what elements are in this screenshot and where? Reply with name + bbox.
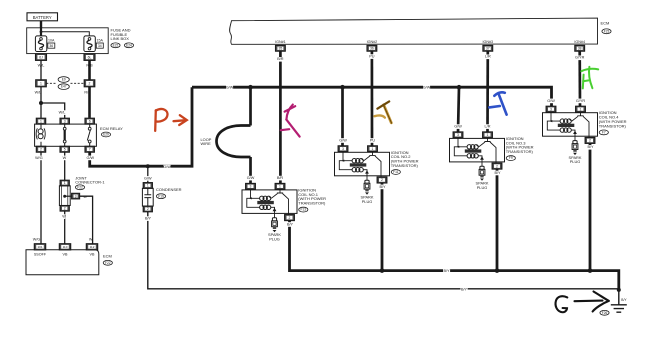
dashed connector link right [71,82,85,84]
dashed connector link left [46,82,57,84]
connector oval coil 2 [391,170,400,175]
svg-text:SSOFF: SSOFF [34,252,47,256]
node B/Y junction coil 2 [380,268,385,273]
svg-text:F13: F13 [301,208,307,212]
svg-text:3: 3 [342,147,344,151]
connector E9 [58,77,69,83]
svg-text:1: 1 [279,185,281,189]
svg-text:W/L: W/L [59,111,66,115]
svg-text:G/W: G/W [144,176,152,180]
ECM pin IGN#4 [575,45,585,51]
battery BATTERY [27,13,58,21]
ground symbol [611,292,627,313]
label B/R [277,57,284,62]
wire G/W to condenser [147,168,149,183]
coil 4 internal wiring [547,113,560,130]
svg-text:112: 112 [90,245,95,249]
svg-text:SPARKPLUG: SPARKPLUG [361,195,374,204]
svg-text:G/YR: G/YR [576,99,586,103]
relay switch contact [87,124,91,146]
wire B/Y ground bus [290,221,619,290]
svg-text:F11: F11 [393,170,398,174]
coil 1 pin 3 [246,183,256,189]
coil 2 internal wiring [339,152,352,169]
svg-text:B/Y: B/Y [621,298,627,302]
label VB 2 [90,252,95,256]
wire G/W branch down [249,87,252,125]
transistor coil 1 [269,190,289,215]
coil 4 transformer core [558,124,575,127]
connector pin 2 [84,80,95,87]
svg-text:B/Y: B/Y [443,269,450,273]
wire B/Y coil 3 [496,169,499,271]
svg-text:E22: E22 [113,43,119,47]
svg-text:6J: 6J [39,55,43,59]
svg-text:VB: VB [90,252,95,256]
joint connector top pin [60,180,69,186]
label G/W [87,156,95,161]
label G/W coil 1 [247,176,255,181]
label B/R coil 1 [277,176,284,181]
svg-text:E47: E47 [61,85,67,89]
label 15A [97,38,104,42]
ECM pin IGN#1 [276,45,286,51]
label IGN#2 [367,40,378,44]
transistor coil 2 [362,152,382,177]
wire G/W branch coil 2 [341,87,344,146]
wire G/W loop to coil 1 [249,157,252,183]
label CONDENSER [156,187,182,192]
wire joint connector branch [65,195,72,197]
svg-text:B/R: B/R [277,57,284,61]
coil 4 pin 3 [546,106,556,112]
diode coil 4 [571,130,577,141]
wire G/YR IGN4 [578,51,581,106]
ECM pin VB 2 [86,244,97,250]
coil 3 transformer core [465,149,482,152]
svg-text:15A: 15A [97,38,104,42]
svg-text:B/Y: B/Y [287,222,294,226]
label R/B [86,64,93,68]
relay coil [36,124,45,146]
label B/Y coil 4 [587,145,594,150]
wire W/L [40,60,42,79]
ECM pin SSOFF [34,244,45,250]
diode coil 3 [478,156,484,167]
coil 4 pin 2 [585,137,595,143]
svg-text:G/W: G/W [454,125,462,129]
condenser bottom pin [143,206,152,212]
coil 4 transformer secondary [560,128,571,132]
wire R/B [88,60,91,79]
label VB 1 [63,252,68,256]
wire PU IGN2 [371,51,374,146]
svg-text:1: 1 [40,119,42,123]
svg-text:1: 1 [580,107,582,111]
coil 3 pin 1 [483,132,493,138]
svg-text:B/Y: B/Y [461,287,468,291]
svg-text:E9: E9 [62,78,66,82]
label ECM RELAY [100,126,123,131]
svg-text:IGN#2: IGN#2 [367,40,378,44]
svg-text:B/R: B/R [277,176,284,180]
label ECM bottom [103,254,112,259]
joint connector JOINT CONNECTOR-1 body [59,186,70,206]
svg-text:B/Y: B/Y [145,217,152,221]
svg-text:1: 1 [487,133,489,137]
spark plug coil 1 [272,218,278,233]
svg-text:SPARKPLUG: SPARKPLUG [268,232,281,241]
connector F26 [600,310,609,315]
relay pin 3 [60,118,69,124]
label B/Y condenser [145,216,152,221]
relay ECM RELAY box [35,124,97,146]
spark plug coil 2 [364,180,370,195]
label B/Y bus [443,269,450,274]
condenser top pin [143,183,152,189]
wire to fuse 1 [40,28,42,36]
label W 3 [89,238,93,242]
label G/YR coil 4 [576,99,586,104]
coil 2 pin 2 [377,177,387,183]
connector E47 [58,84,69,90]
label IGN#1 [275,40,286,44]
svg-text:L/R: L/R [485,55,491,59]
annotation black G with arrow [556,292,609,313]
svg-text:F19: F19 [158,194,164,198]
svg-text:3: 3 [457,133,459,137]
node joint connector junction [63,195,66,198]
connector E22 [111,43,120,48]
svg-text:B/Y: B/Y [587,145,594,149]
connector oval coil 1 [299,207,308,212]
label W/G [35,156,43,161]
wire W relay pin 5 to joint connector [64,152,66,181]
wire W/L to relay pin 1 [40,87,42,118]
label B/Y coil 3 [494,171,501,176]
svg-text:36: 36 [370,47,374,51]
svg-text:2: 2 [89,82,91,86]
coil 3 pin 3 [453,132,463,138]
fuse 15A (34) [84,36,95,52]
svg-text:G/W: G/W [247,176,255,180]
svg-text:101: 101 [37,245,42,249]
svg-text:B/Y: B/Y [379,185,386,189]
coil 2 transformer primary [352,159,363,163]
label R/B 2 [84,91,91,95]
coil 1 transformer primary [260,196,271,200]
label W/G 2 [33,238,41,242]
svg-text:3: 3 [75,194,77,198]
node condenser junction [146,164,150,168]
svg-text:2: 2 [289,216,291,220]
fuse 10A (36) [35,36,46,52]
annotation brown scribble [375,101,392,123]
svg-text:IGN#4: IGN#4 [574,40,585,44]
node ground junction [617,288,621,292]
connector F23 [602,29,611,34]
wire W/L branch to relay pin 3 [41,103,65,118]
coil 3 transformer secondary [467,154,478,158]
svg-text:G/W: G/W [339,138,347,142]
wire W/G relay pin 2 to ECM [40,152,42,244]
node B/Y junction coil 4 [588,268,593,273]
label B/Y thin line [461,287,468,292]
svg-text:3: 3 [550,107,552,111]
relay pin 1 [36,118,45,124]
svg-text:F9: F9 [509,156,513,160]
svg-text:2: 2 [589,139,591,143]
svg-text:L/R: L/R [485,125,491,129]
label G/W bus right [423,86,431,91]
coil 2 pin 1 [368,146,378,152]
label SSOFF [34,252,47,256]
ignition coil no.2 box [335,152,390,176]
label IGN#4 [574,40,585,44]
wire G/W branch coil 3 [458,87,459,132]
coil 1 transformer secondary [260,205,271,209]
connector pin 6J [36,54,47,61]
svg-text:35: 35 [279,47,283,51]
capacitor CONDENSER [142,188,153,206]
connector oval coil 4 [599,130,608,135]
svg-text:38: 38 [578,47,582,51]
label B/Y coil 1 [287,222,294,227]
label W/L 2 [35,91,42,95]
fuse and fusible link box outline [27,28,109,54]
wire G/W bus [192,87,552,106]
coil 1 pin 2 [285,215,295,221]
svg-text:2: 2 [147,207,149,211]
label L/R coil 3 [484,124,491,129]
ECM (bottom left) box [26,250,99,275]
svg-text:BATTERY: BATTERY [33,15,52,20]
svg-text:2: 2 [64,207,66,211]
svg-text:G/W: G/W [547,99,555,103]
svg-text:G/YR: G/YR [575,56,585,60]
svg-text:SPARKPLUG: SPARKPLUG [569,155,582,164]
svg-text:W/G: W/G [35,156,43,160]
joint connector side pin [72,193,80,199]
wire W to ECM VB right [80,196,93,244]
wire R/B to relay pin 6 [88,87,91,118]
connector pin 6L [84,54,95,61]
svg-text:W: W [89,238,93,242]
node B/Y junction coil 3 [495,268,500,273]
annotation magenta scribble [281,105,300,137]
fuse number 34 [96,43,103,48]
ECM pin IGN#2 [367,45,377,51]
coil 1 pin 1 [275,183,285,189]
connector F19 [156,194,165,199]
svg-text:G/W: G/W [87,156,95,160]
label B/Y coil 2 [379,185,386,190]
coil 3 pin 2 [492,163,502,169]
svg-text:G/W: G/W [423,86,431,90]
coil 1 internal wiring [247,190,260,207]
label ECM top [601,21,610,26]
svg-text:VB: VB [63,252,68,256]
svg-text:1: 1 [40,82,42,86]
spark plug coil 4 [572,141,578,156]
connector E24 [124,43,133,48]
relay pin 7 [85,146,94,152]
svg-text:10A: 10A [48,38,55,42]
joint connector bottom pin [60,206,69,212]
label 10A [48,38,55,42]
label W/L [38,64,45,68]
wire battery to fuse box [40,21,42,28]
svg-text:F23: F23 [604,29,610,33]
relay pin 2 [36,146,45,152]
svg-text:34: 34 [98,44,102,48]
svg-text:ECM RELAY: ECM RELAY [100,126,123,131]
coil 4 transformer primary [560,119,571,123]
transistor coil 4 [570,113,590,138]
connector F22 oval [75,185,84,190]
wire B/Y coil 2 [381,183,384,271]
ignition coil no.3 box [450,138,505,162]
label W 2 [62,214,66,219]
svg-text:2: 2 [40,147,42,151]
ignition coil no.4 box [543,113,598,137]
svg-text:F26: F26 [602,311,608,315]
node G/W junction coil 3 [457,85,462,90]
svg-text:F22: F22 [77,185,83,189]
svg-text:7: 7 [89,147,91,151]
label B/Y ground [621,298,627,302]
svg-text:LOOPWIRE: LOOPWIRE [201,137,212,146]
coil 3 internal wiring [454,138,467,155]
label G/W coil 4 [547,99,555,104]
svg-text:2: 2 [496,164,498,168]
label W/L 3 [59,110,66,115]
label W branch [83,195,87,199]
label G/YR [575,56,585,61]
ECM pin IGN#3 [483,45,493,51]
label L/R [484,55,491,60]
svg-text:1: 1 [372,147,374,151]
diode coil 2 [363,170,369,181]
wire G/W relay pin 7 power feed [90,87,192,166]
ignition coil no.1 box [242,190,297,214]
svg-text:W: W [62,215,66,219]
svg-text:F7: F7 [602,131,606,135]
svg-text:G/W: G/W [226,86,234,90]
svg-text:IGN#3: IGN#3 [482,40,493,44]
node G/W junction coil 1 [248,85,253,90]
svg-text:CONDENSER: CONDENSER [156,187,182,192]
svg-text:3: 3 [64,119,66,123]
svg-text:F22: F22 [105,261,111,265]
diode coil 1 [271,207,277,218]
coil 2 pin 3 [338,146,348,152]
coil 3 transformer primary [467,145,478,149]
label G/W 2 [163,165,171,170]
wire to fuse 2 [41,32,89,36]
svg-text:5: 5 [64,147,66,151]
connector E29 [101,132,110,137]
annotation green scribble [581,67,598,89]
label IGN#3 [482,40,493,44]
svg-text:6: 6 [89,119,91,123]
wire B/Y condenser ground line [148,212,619,289]
label G/W condenser [144,176,152,181]
svg-text:2: 2 [381,178,383,182]
coil 1 transformer core [257,201,274,204]
svg-text:1: 1 [64,181,66,185]
svg-text:W/G: W/G [33,238,41,242]
svg-text:PU: PU [370,138,376,142]
svg-text:SPARKPLUG: SPARKPLUG [476,181,489,190]
coil 4 pin 1 [576,106,586,112]
relay pin 6 [85,118,94,124]
label G/W bus left [226,86,234,91]
svg-text:ECM: ECM [103,254,112,259]
wire B/Y coil 4 [589,143,592,270]
svg-text:110: 110 [63,245,68,249]
connector pin 1 [36,80,47,87]
node battery feed junction [40,30,43,33]
svg-text:E29: E29 [103,133,109,137]
node W/L branch junction [39,101,43,105]
connector F22 ECM [103,260,112,265]
svg-text:36: 36 [49,44,53,48]
annotation red P with arrow [155,109,187,131]
label W [63,156,67,161]
svg-text:3: 3 [250,185,252,189]
transistor coil 3 [477,138,497,163]
label PU [369,54,375,59]
loop wire [217,126,251,158]
label G/W coil 3 [454,124,462,129]
label PU coil 2 [370,138,376,143]
node G/W junction coil 2 [340,85,345,90]
relay pin 5 [60,146,69,152]
svg-text:PU: PU [369,55,375,59]
label G/W coil 2 [339,138,347,143]
svg-text:6L: 6L [88,55,92,59]
spark plug coil 3 [479,166,485,181]
coil 2 transformer core [350,163,367,166]
svg-text:W: W [63,156,67,160]
fuse number 36 [48,43,55,48]
svg-text:37: 37 [486,47,490,51]
svg-text:B/Y: B/Y [494,171,501,175]
relay contact center [63,124,66,146]
wire B/R IGN1 [279,51,282,183]
annotation blue scribble [489,92,506,114]
ECM (top) box [230,18,598,44]
coil 2 transformer secondary [352,168,363,172]
svg-text:IGN#1: IGN#1 [275,40,286,44]
wire W joint connector to ECM VB [64,211,66,244]
svg-text:ECM: ECM [601,21,610,26]
connector oval coil 3 [506,156,515,161]
wire L/R IGN3 [486,51,489,132]
svg-text:G/W: G/W [163,165,171,169]
svg-text:E24: E24 [126,43,132,47]
svg-text:1: 1 [147,184,149,188]
ECM pin VB 1 [59,244,70,250]
